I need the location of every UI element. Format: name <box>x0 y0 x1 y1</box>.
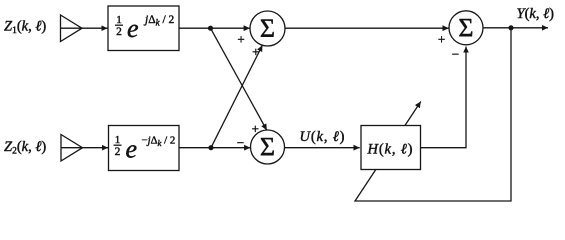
wire summer S1 to summer S3 <box>285 27 449 29</box>
svg-text:U(k, ℓ): U(k, ℓ) <box>300 129 346 145</box>
svg-text:H(k, ℓ): H(k, ℓ) <box>367 141 414 157</box>
svg-text:+: + <box>438 32 445 47</box>
buffer amplifier triangle Z1 <box>61 15 83 42</box>
svg-text:1: 1 <box>115 134 121 146</box>
value label 1/2 e^{j delta_k/2} (box B1) <box>116 14 174 43</box>
wire summer S3 to output Y <box>483 27 548 29</box>
svg-text:Σ: Σ <box>260 132 275 161</box>
svg-text:+: + <box>252 44 259 59</box>
wire summer S2 to filter H (signal U) <box>285 147 360 149</box>
summer S1 (top sigma) <box>250 11 285 46</box>
svg-text:−: − <box>452 47 459 62</box>
wire phase box 2 to summer S2 <box>179 147 250 149</box>
wire cross diagonal from top node to summer S2 <box>211 28 267 130</box>
value label 1/2 e^{-j delta_k/2} (box B2) <box>115 134 176 163</box>
output label Y(k,l) <box>517 6 555 22</box>
svg-text:2: 2 <box>115 146 121 158</box>
svg-text:+: + <box>252 121 259 136</box>
svg-text:2: 2 <box>116 26 122 38</box>
signal label U(k,l) <box>300 129 346 145</box>
adaptive filter box H(k,l) <box>361 126 421 170</box>
svg-text:e: e <box>126 134 138 163</box>
svg-text:Σ: Σ <box>458 13 473 42</box>
svg-text:Z1(k, ℓ): Z1(k, ℓ) <box>4 19 46 37</box>
phase shift box B1 <box>108 6 179 51</box>
svg-text:1: 1 <box>116 14 122 26</box>
node junction dot bottom <box>208 145 213 150</box>
svg-text:Y(k, ℓ): Y(k, ℓ) <box>517 6 555 22</box>
svg-text:Z2(k, ℓ): Z2(k, ℓ) <box>4 139 46 157</box>
phase shift box B2 <box>109 126 180 171</box>
svg-text:+: + <box>237 32 244 47</box>
svg-text:Σ: Σ <box>260 14 275 43</box>
node junction dot output Y <box>508 25 513 30</box>
svg-text:jΔk / 2: jΔk / 2 <box>143 14 175 28</box>
wire Z2 buffer to phase box 2 <box>83 147 109 149</box>
svg-text:−: − <box>237 135 244 150</box>
wire cross diagonal from bottom node to summer S1 <box>211 45 262 148</box>
wire phase box 1 to summer S1 <box>179 27 250 29</box>
wire feedback from node Y down, along bottom, diagonal adaptation arrow into filter H <box>355 28 511 201</box>
svg-text:e: e <box>127 14 139 43</box>
wire filter H output to summer S3 (minus input) <box>421 47 467 148</box>
buffer amplifier triangle Z2 <box>61 135 83 162</box>
summer S3 (right sigma) <box>449 11 483 45</box>
input label Z1(k,l) <box>4 19 46 37</box>
summer S2 (bottom sigma) <box>251 130 285 164</box>
node junction dot top <box>208 26 213 31</box>
wire Z1 buffer to phase box 1 <box>82 27 108 29</box>
input label Z2(k,l) <box>4 139 46 157</box>
